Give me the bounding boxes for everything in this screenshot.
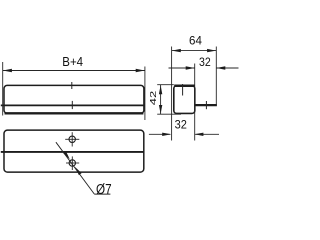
svg-text:42: 42 bbox=[149, 91, 158, 105]
hole 1 circle bbox=[69, 136, 75, 142]
hole 2 centerline tick on plate edge bbox=[71, 101, 73, 109]
extension line middle (32/32) bbox=[194, 64, 196, 141]
side view: thick top edge bbox=[174, 84, 194, 87]
hole 2 crosshair bbox=[66, 162, 79, 164]
hole 1 centerline in side view bbox=[182, 84, 184, 96]
hole 2 circle bbox=[69, 160, 75, 166]
top view: tube/plate boundary line bbox=[1, 151, 144, 153]
svg-text:64: 64 bbox=[189, 33, 202, 47]
dimension 32 bottom: right tail with arrow bbox=[195, 133, 219, 135]
top view: outline bbox=[4, 130, 144, 172]
leader arrowhead lower bbox=[75, 167, 82, 175]
svg-text:Ø7: Ø7 bbox=[96, 180, 112, 197]
dimension 64: dimension line bbox=[172, 50, 217, 52]
front view: thick bottom edge bbox=[5, 112, 144, 114]
svg-text:B+4: B+4 bbox=[62, 54, 83, 69]
dimension 42: dimension line bbox=[160, 85, 162, 114]
dimension 42: extension lines bbox=[157, 84, 174, 86]
dimension 32 top: left tail with arrow bbox=[169, 67, 195, 69]
hole 1 centerline tick on top edge bbox=[71, 82, 73, 89]
side view: square tube section bbox=[174, 86, 195, 114]
svg-text:32: 32 bbox=[199, 56, 211, 69]
side view: plate seen edge-on bbox=[195, 104, 217, 106]
leader arrowhead upper bbox=[63, 151, 70, 159]
dimension 32 bottom: left tail with arrow bbox=[149, 133, 170, 135]
dimension B+4: left extension line bbox=[2, 62, 4, 116]
extension line right (64/32 top) bbox=[215, 47, 217, 106]
front view: tube bar outline bbox=[4, 85, 144, 113]
dimension B+4: right extension line bbox=[144, 67, 146, 121]
dimension 32 top: right tail with arrow bbox=[216, 67, 238, 69]
dimension B+4: dimension line with arrows bbox=[3, 70, 145, 72]
svg-text:32: 32 bbox=[175, 119, 187, 131]
extension line left (64/32) bbox=[171, 47, 173, 141]
front view: plate edge line bbox=[1, 104, 144, 106]
leader underline bbox=[94, 193, 110, 195]
diameter leader line through hole 2 bbox=[56, 142, 94, 194]
hole 1 crosshair bbox=[65, 138, 79, 140]
hole 2 centerline tick on plate bbox=[205, 101, 207, 109]
